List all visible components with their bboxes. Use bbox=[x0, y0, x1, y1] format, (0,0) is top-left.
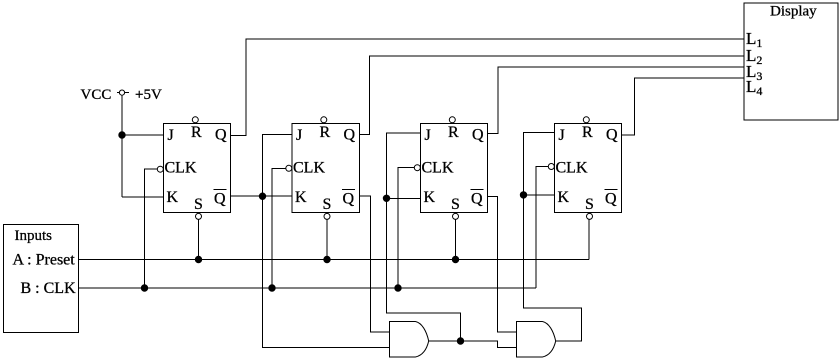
wire A preset line bbox=[79, 259, 590, 261]
node G1 output junction bbox=[457, 338, 463, 344]
display box bbox=[744, 3, 838, 120]
wire Q2bar down to AND G1 upper input bbox=[359, 196, 390, 332]
wire S4 to A line end bbox=[588, 219, 590, 259]
svg-text:VCC: VCC bbox=[81, 87, 112, 103]
wire S3 to A line bbox=[455, 219, 457, 259]
wire G1 output feedback up to J3/K3 node bbox=[387, 198, 461, 341]
svg-text:J: J bbox=[296, 127, 302, 144]
wire VCC vertical bbox=[121, 95, 123, 197]
svg-text:CLK: CLK bbox=[422, 160, 454, 177]
node J4K4 junction bbox=[520, 192, 526, 198]
wire Q1 to L1 rail bbox=[231, 39, 745, 136]
svg-text:R: R bbox=[582, 124, 593, 141]
flip-flop U2 R bubble bbox=[321, 117, 327, 123]
node VCC junction bbox=[119, 132, 125, 138]
svg-text:Q: Q bbox=[605, 191, 617, 208]
svg-text:J: J bbox=[168, 127, 174, 144]
wire CLK2 to B line bbox=[272, 168, 286, 288]
svg-text:S: S bbox=[451, 196, 460, 213]
flip-flop U1 box bbox=[164, 123, 231, 212]
flip-flop U3 CLK bubble bbox=[414, 165, 420, 171]
wire node1 down to AND G1 lower input bbox=[263, 196, 390, 347]
wire J3K3 node up to J3 bbox=[387, 133, 421, 198]
AND gate G1 bbox=[390, 322, 429, 358]
wire CLK1 to B line bbox=[145, 169, 158, 288]
svg-text:A : Preset: A : Preset bbox=[13, 252, 76, 269]
flip-flop U1 R bubble bbox=[192, 117, 198, 123]
wire Q1bar to FF2 (K2) bbox=[231, 195, 293, 197]
AND gate G2 bbox=[517, 322, 556, 358]
svg-text:K: K bbox=[167, 189, 179, 206]
wire J3K3 node to K3 bbox=[387, 197, 421, 199]
flip-flop U2 box bbox=[292, 123, 360, 212]
flip-flop U1 CLK bubble bbox=[157, 166, 163, 172]
svg-text:B : CLK: B : CLK bbox=[21, 280, 77, 297]
wire Q4 to L4 rail bbox=[622, 78, 745, 135]
wire AND G2 output loop to J4/K4 node bbox=[524, 195, 582, 341]
svg-text:R: R bbox=[448, 124, 459, 141]
wire Q2 to L2 rail bbox=[359, 56, 744, 134]
svg-text:Q: Q bbox=[343, 191, 355, 208]
svg-text:Inputs: Inputs bbox=[15, 228, 53, 244]
flip-flop U2 CLK bubble bbox=[286, 165, 292, 171]
VCC power symbol bbox=[119, 90, 124, 95]
flip-flop U4 CLK bubble bbox=[548, 164, 554, 170]
wire B clock line bbox=[79, 287, 537, 289]
svg-text:J: J bbox=[425, 127, 431, 144]
svg-text:Display: Display bbox=[770, 4, 817, 20]
svg-text:K: K bbox=[295, 189, 307, 206]
svg-text:K: K bbox=[558, 189, 570, 206]
inputs box bbox=[4, 225, 79, 333]
flip-flop U3 S bubble bbox=[453, 213, 459, 219]
node Q1bar junction bbox=[259, 193, 265, 199]
wire VCC to K1 bbox=[122, 196, 164, 198]
wire node1 up to J2 bbox=[263, 134, 293, 196]
svg-text:Q: Q bbox=[471, 191, 483, 208]
svg-text:S: S bbox=[194, 196, 203, 213]
flip-flop U3 R bubble bbox=[449, 117, 455, 123]
node S1-A junction bbox=[195, 256, 201, 262]
svg-text:R: R bbox=[191, 124, 202, 141]
flip-flop U2 S bubble bbox=[324, 213, 330, 219]
svg-text:Q: Q bbox=[215, 127, 227, 144]
svg-text:S: S bbox=[323, 196, 332, 213]
svg-text:K: K bbox=[424, 189, 436, 206]
node CLK3-B junction bbox=[395, 285, 401, 291]
flip-flop U4 box bbox=[555, 123, 622, 212]
svg-text:+5V: +5V bbox=[135, 87, 162, 103]
node J3K3 junction bbox=[383, 195, 389, 201]
svg-text:Q: Q bbox=[472, 127, 484, 144]
node CLK1-B junction bbox=[141, 285, 147, 291]
wire G1 output jog to G2 lower input bbox=[461, 341, 517, 348]
wire J4K4 node up to J4 bbox=[524, 133, 555, 195]
wire Q3bar down to AND G2 upper input bbox=[488, 197, 517, 332]
node S3-A junction bbox=[452, 256, 458, 262]
flip-flop U4 S bubble bbox=[587, 213, 593, 219]
svg-text:Q: Q bbox=[606, 127, 618, 144]
wire AND G1 output bbox=[429, 340, 461, 342]
svg-text:R: R bbox=[320, 124, 331, 141]
wire Q3 to L3 rail bbox=[488, 67, 745, 134]
wire VCC to J1 bbox=[122, 134, 164, 136]
flip-flop U3 box bbox=[421, 123, 488, 212]
wire S2 to A line bbox=[326, 219, 328, 259]
svg-text:CLK: CLK bbox=[556, 160, 588, 177]
svg-text:CLK: CLK bbox=[293, 160, 325, 177]
flip-flop U1 S bubble bbox=[196, 213, 202, 219]
svg-text:J: J bbox=[559, 127, 565, 144]
wire J4K4 node to K4 bbox=[524, 194, 555, 196]
svg-text:CLK: CLK bbox=[165, 160, 197, 177]
flip-flop U4 R bubble bbox=[583, 117, 589, 123]
node CLK2-B junction bbox=[269, 285, 275, 291]
wire CLK3 to B line bbox=[398, 168, 414, 288]
svg-text:S: S bbox=[585, 196, 594, 213]
svg-text:Q: Q bbox=[344, 127, 356, 144]
wire S1 to A line bbox=[198, 219, 200, 259]
svg-text:Q: Q bbox=[214, 191, 226, 208]
node S2-A junction bbox=[324, 256, 330, 262]
wire CLK4 to B line end bbox=[536, 167, 548, 289]
